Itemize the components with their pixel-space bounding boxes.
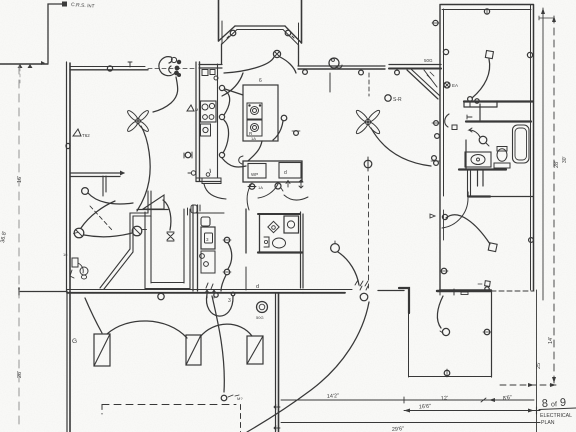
svg-text:28': 28' — [17, 371, 23, 378]
svg-text:16: 16 — [63, 252, 68, 257]
range oven 2 — [247, 120, 262, 136]
dim: title vertical — [536, 290, 538, 432]
wall: bay left vertical — [218, 0, 220, 41]
telephone triangle T62 — [73, 129, 81, 136]
wall: north wall to right wing — [389, 64, 441, 66]
SECTION: garage — [67, 291, 280, 432]
wall: right wing east double — [530, 5, 532, 291]
SECTION: bedroom3 porch — [247, 289, 492, 432]
furnace F — [201, 227, 215, 249]
svg-text:30': 30' — [562, 156, 568, 163]
dim: ticks on title vertical — [533, 407, 540, 414]
wall light left of half-bath — [74, 228, 84, 238]
sink counter — [494, 163, 510, 168]
node: triangle at wall — [430, 214, 435, 218]
svg-text:16'6": 16'6" — [419, 404, 432, 411]
wire: arc post2 to post3 — [200, 324, 252, 337]
mirror light with curl — [479, 136, 487, 144]
outlet: counter edge 2 — [219, 114, 224, 119]
svg-text:14'2": 14'2" — [327, 393, 340, 400]
light fixture square bedroom1 — [485, 51, 493, 59]
wire: hearth outlet to stairs — [88, 193, 133, 204]
node: arrow tick 3 — [41, 61, 45, 65]
svg-text:PLAN: PLAN — [541, 420, 555, 426]
sink: double bowl — [201, 101, 217, 122]
wall: back wall main double — [67, 289, 303, 291]
svg-text:S-R: S-R — [393, 97, 402, 103]
svg-text:WP: WP — [251, 172, 258, 177]
wall: utility closet double — [192, 205, 194, 291]
wall: garage west double — [66, 291, 68, 432]
stairwell U walls — [144, 212, 146, 289]
switch cluster blob S — [159, 57, 175, 76]
node: arrow tick 1 — [18, 64, 23, 68]
node: small device on band — [206, 173, 210, 177]
wire: fan F2 to east — [371, 128, 431, 166]
node: door hardware squares — [202, 70, 208, 76]
toilet bath2 — [273, 238, 286, 248]
wall: north wall segment east of bay — [298, 65, 385, 67]
wall: hearth return — [102, 176, 104, 196]
wall: bay right vertical — [301, 0, 303, 43]
svg-text:M: M — [195, 107, 198, 112]
wall: short top wall with door hardware — [199, 64, 222, 66]
svg-text:d: d — [284, 170, 287, 176]
SECTION: top-left chimney — [0, 2, 95, 85]
wire: hall door arc — [247, 183, 252, 210]
wall: corner stub — [399, 288, 409, 313]
wall: bed3 west thin — [408, 313, 410, 377]
wire: from bath outlet down to post1 — [85, 298, 102, 333]
svg-text:G: G — [72, 338, 77, 345]
den step diagonals — [100, 249, 130, 288]
svg-text:14': 14' — [548, 337, 554, 344]
wall: bed3 north — [437, 290, 491, 292]
SECTION: top wall right of bay — [298, 58, 441, 103]
svg-text:6: 6 — [259, 78, 262, 84]
light fixture X in stairwell — [167, 232, 174, 241]
wire: left light up to fan wire — [81, 201, 115, 228]
wire: switch blob to fan — [153, 77, 178, 112]
svg-text:M?: M? — [237, 396, 243, 401]
wire: curl into island left — [239, 156, 243, 164]
lower counter island — [243, 161, 302, 182]
wire: arc below island to right — [284, 195, 308, 200]
counter east edge — [217, 64, 219, 178]
wire: counter to lower island — [222, 158, 246, 167]
outlet pair at bed — [468, 97, 473, 102]
outlet left low — [443, 49, 448, 54]
ceiling fixture circled X in nook — [273, 50, 280, 57]
wall: garage east double — [275, 293, 277, 432]
svg-text:3: 3 — [228, 298, 231, 304]
wall: hall west — [245, 209, 247, 253]
outlet corner — [294, 131, 299, 136]
wall light right — [132, 226, 142, 236]
wire: counter outlet loop 2 — [223, 120, 229, 153]
svg-text:8'6": 8'6" — [502, 395, 512, 402]
wire: faint stub — [19, 68, 21, 84]
vanity counter — [465, 152, 491, 167]
dim: short dashed horizontal — [500, 384, 556, 386]
light fixture square bedroom2 — [488, 243, 497, 252]
wall: family room north wall — [70, 66, 145, 68]
SECTION: bay nook — [219, 0, 302, 73]
SECTION: kitchen — [184, 62, 308, 200]
wall: angled entry closet — [407, 70, 438, 99]
svg-text:29'6": 29'6" — [392, 426, 405, 432]
wall: bath2 west — [259, 214, 261, 252]
wall: bath south — [459, 168, 506, 170]
wire: arc post1 to post2 — [107, 321, 187, 338]
wall: bed3 south — [409, 376, 491, 378]
wall: bath2 south — [258, 251, 302, 253]
wire: nook fixture to kitchen wall — [224, 57, 274, 73]
SECTION: right wing — [430, 5, 534, 292]
range oven 1 — [247, 103, 262, 119]
outlet right — [527, 52, 532, 57]
ceiling fan F1 — [126, 109, 150, 133]
node: arrows on east wall — [274, 405, 280, 409]
SECTION: middle bath and living — [246, 109, 431, 290]
dim: bottom line A — [281, 399, 534, 401]
outlet on north wall 2 — [359, 70, 364, 75]
counter bottom — [196, 177, 221, 179]
wire: loop below wall — [206, 294, 233, 316]
wire: chimney outline — [48, 4, 66, 63]
wall: stub — [479, 104, 481, 120]
node: arrows at closet base — [205, 290, 216, 298]
node: arrow tick 2 — [28, 64, 33, 68]
wall: hall west double — [467, 170, 469, 196]
outlet on north wall — [107, 66, 112, 71]
wall: back wall left thin segment — [19, 291, 67, 293]
wall: dashed segment right — [491, 290, 534, 292]
ceiling light living — [331, 244, 340, 253]
wire: counter outlet loop 1 — [224, 90, 230, 115]
water heater WH — [257, 302, 268, 313]
ceiling fixture with curl — [329, 58, 339, 68]
wall: kitchen west double — [195, 62, 197, 181]
wall: segment to bed3 — [378, 290, 404, 292]
post 1 hatched — [94, 334, 110, 366]
wire: dashed guide — [90, 206, 112, 230]
svg-text:1A: 1A — [258, 185, 263, 190]
svg-text:ELECTRICAL: ELECTRICAL — [540, 413, 572, 419]
wall: bath west — [465, 140, 467, 169]
dim: right vertical dashed — [553, 16, 555, 383]
wire: right of island — [281, 115, 287, 121]
node: centerline symbol — [364, 160, 372, 168]
dim: right vertical solid — [542, 8, 544, 300]
node: window tick — [461, 292, 468, 295]
post 2 hatched — [186, 335, 201, 365]
wall: bed3 east — [491, 291, 493, 377]
wall: right wing west double — [439, 5, 441, 292]
node: knob — [200, 254, 205, 259]
light on left chamfer — [230, 30, 236, 36]
dim: left vertical dashed — [18, 66, 20, 425]
SECTION: back wall — [19, 281, 534, 316]
outlet O below hearth — [82, 188, 89, 195]
node: arrow at hearth end — [120, 171, 125, 176]
wall: den step jog — [130, 191, 148, 249]
wall: bath2 north — [258, 213, 300, 215]
dim: bottom line B — [404, 410, 534, 412]
outlet bedroom2 right wall — [529, 238, 534, 243]
outlet right of closet upper — [224, 237, 230, 243]
closet band bedroom1 — [464, 100, 533, 102]
faucet dot — [477, 158, 480, 161]
outlet: counter edge 3 — [219, 152, 224, 157]
svg-text:T62: T62 — [82, 133, 90, 138]
wire: arc below island left — [258, 184, 278, 198]
wall: bath north — [466, 120, 531, 122]
bathtub — [513, 125, 530, 163]
garage door opener M — [221, 395, 227, 401]
node: fixture on wall — [485, 281, 491, 287]
svg-text:50G: 50G — [424, 58, 433, 63]
outlet duplex on wall — [185, 152, 191, 158]
wire: fan F1 down to stairs — [137, 126, 150, 211]
node: outlet with bar left of counter — [191, 171, 195, 175]
node: tick — [128, 62, 132, 67]
SECTION: left wing walls — [63, 57, 232, 298]
outlet: counter edge 1 — [219, 85, 224, 90]
outlet west wall — [433, 20, 438, 25]
hall outlets on west wall — [434, 121, 439, 126]
outlet bed3 south — [444, 370, 450, 376]
wall: living west — [300, 212, 302, 288]
wire: dashed centerline — [368, 176, 370, 288]
wire: switch to closet light — [437, 296, 443, 328]
door jamb marks — [440, 289, 454, 295]
outlet on south wall — [485, 287, 489, 291]
svg-text:16': 16' — [17, 176, 23, 183]
water softener — [201, 251, 215, 273]
wall: bedroom2 north — [468, 195, 490, 197]
node: switch ticks — [355, 280, 368, 286]
switch S-R — [385, 95, 391, 101]
wire: long drop to opener — [212, 296, 224, 392]
shelf line — [196, 212, 224, 214]
SECTION: title block — [539, 397, 576, 426]
node: switch cluster at stair door — [206, 283, 213, 289]
wire: fixture to wall — [472, 59, 490, 98]
outlet bedroom2 west — [441, 268, 447, 274]
post 3 hatched — [247, 336, 263, 364]
door swing bedroom2 — [442, 198, 468, 228]
wire: between wall lights — [84, 233, 132, 237]
svg-text:28': 28' — [554, 161, 560, 168]
dim: top right arrow pair — [539, 16, 553, 20]
wire: between closet outlets — [228, 243, 232, 269]
wire: porch sweep — [247, 302, 369, 432]
node: flue box — [62, 2, 67, 7]
wire: dashed center — [368, 73, 370, 96]
door jamb double — [477, 170, 479, 186]
shower stall — [284, 216, 299, 233]
sink diamond — [268, 221, 279, 232]
fireplace hearth wall — [70, 172, 124, 174]
wire: furnace closet wiggle — [222, 73, 243, 96]
wire: island to counter — [225, 89, 243, 95]
light on right chamfer — [285, 30, 291, 36]
cooktop — [201, 124, 211, 136]
svg-text:1A: 1A — [251, 136, 256, 141]
wall: bedroom2 south — [440, 289, 491, 291]
ceiling fan F2 — [355, 109, 381, 135]
dim: bottom line C — [281, 422, 534, 424]
outlet on back wall — [158, 293, 164, 299]
wire: dashed garage door track — [102, 404, 236, 406]
wire: nook fixture to right wall — [280, 57, 296, 73]
node: anchor tick left — [18, 288, 20, 295]
wall: bay left chamfer — [219, 26, 236, 41]
wall: left exterior double line — [66, 62, 68, 291]
outlet on north wall 1 — [303, 70, 308, 75]
outlet right of closet lower — [224, 269, 230, 275]
island tall rectangle — [243, 85, 278, 141]
half-bath fixtures — [72, 258, 78, 267]
wire: lower outlet to wall — [221, 275, 226, 291]
outlet on left wall — [66, 143, 70, 148]
outlet row below lower island — [249, 184, 255, 190]
wall: bay right chamfer — [285, 26, 302, 43]
svg-text:12': 12' — [441, 396, 449, 402]
ceiling outlet bedroom1 — [484, 9, 489, 14]
wall: upper-left exterior wall — [0, 63, 48, 65]
svg-text:25': 25' — [536, 362, 542, 369]
wall: bay top — [235, 25, 285, 27]
outlet bed3 east — [484, 329, 490, 335]
door opening circle — [360, 293, 368, 301]
svg-text:50G: 50G — [256, 315, 264, 320]
telephone triangle M — [187, 105, 194, 111]
svg-text:EA: EA — [452, 83, 458, 88]
switch EA — [444, 82, 450, 88]
stair triangle — [143, 195, 164, 209]
wire: light to switch at wall — [338, 252, 359, 285]
cabinet small — [201, 217, 210, 226]
wall: bay inner verticals down to house wall — [221, 44, 223, 64]
wire: switch to fixture bedroom2 — [446, 215, 490, 244]
toilet — [497, 149, 507, 161]
wire: island bottom S — [248, 141, 262, 161]
outlet on north wall 3 — [395, 70, 400, 75]
wall: right wing north — [441, 4, 533, 6]
wire: stair to fixture — [163, 200, 171, 230]
wire: door swing below counter — [204, 184, 226, 199]
wire: hall hook — [445, 114, 449, 127]
